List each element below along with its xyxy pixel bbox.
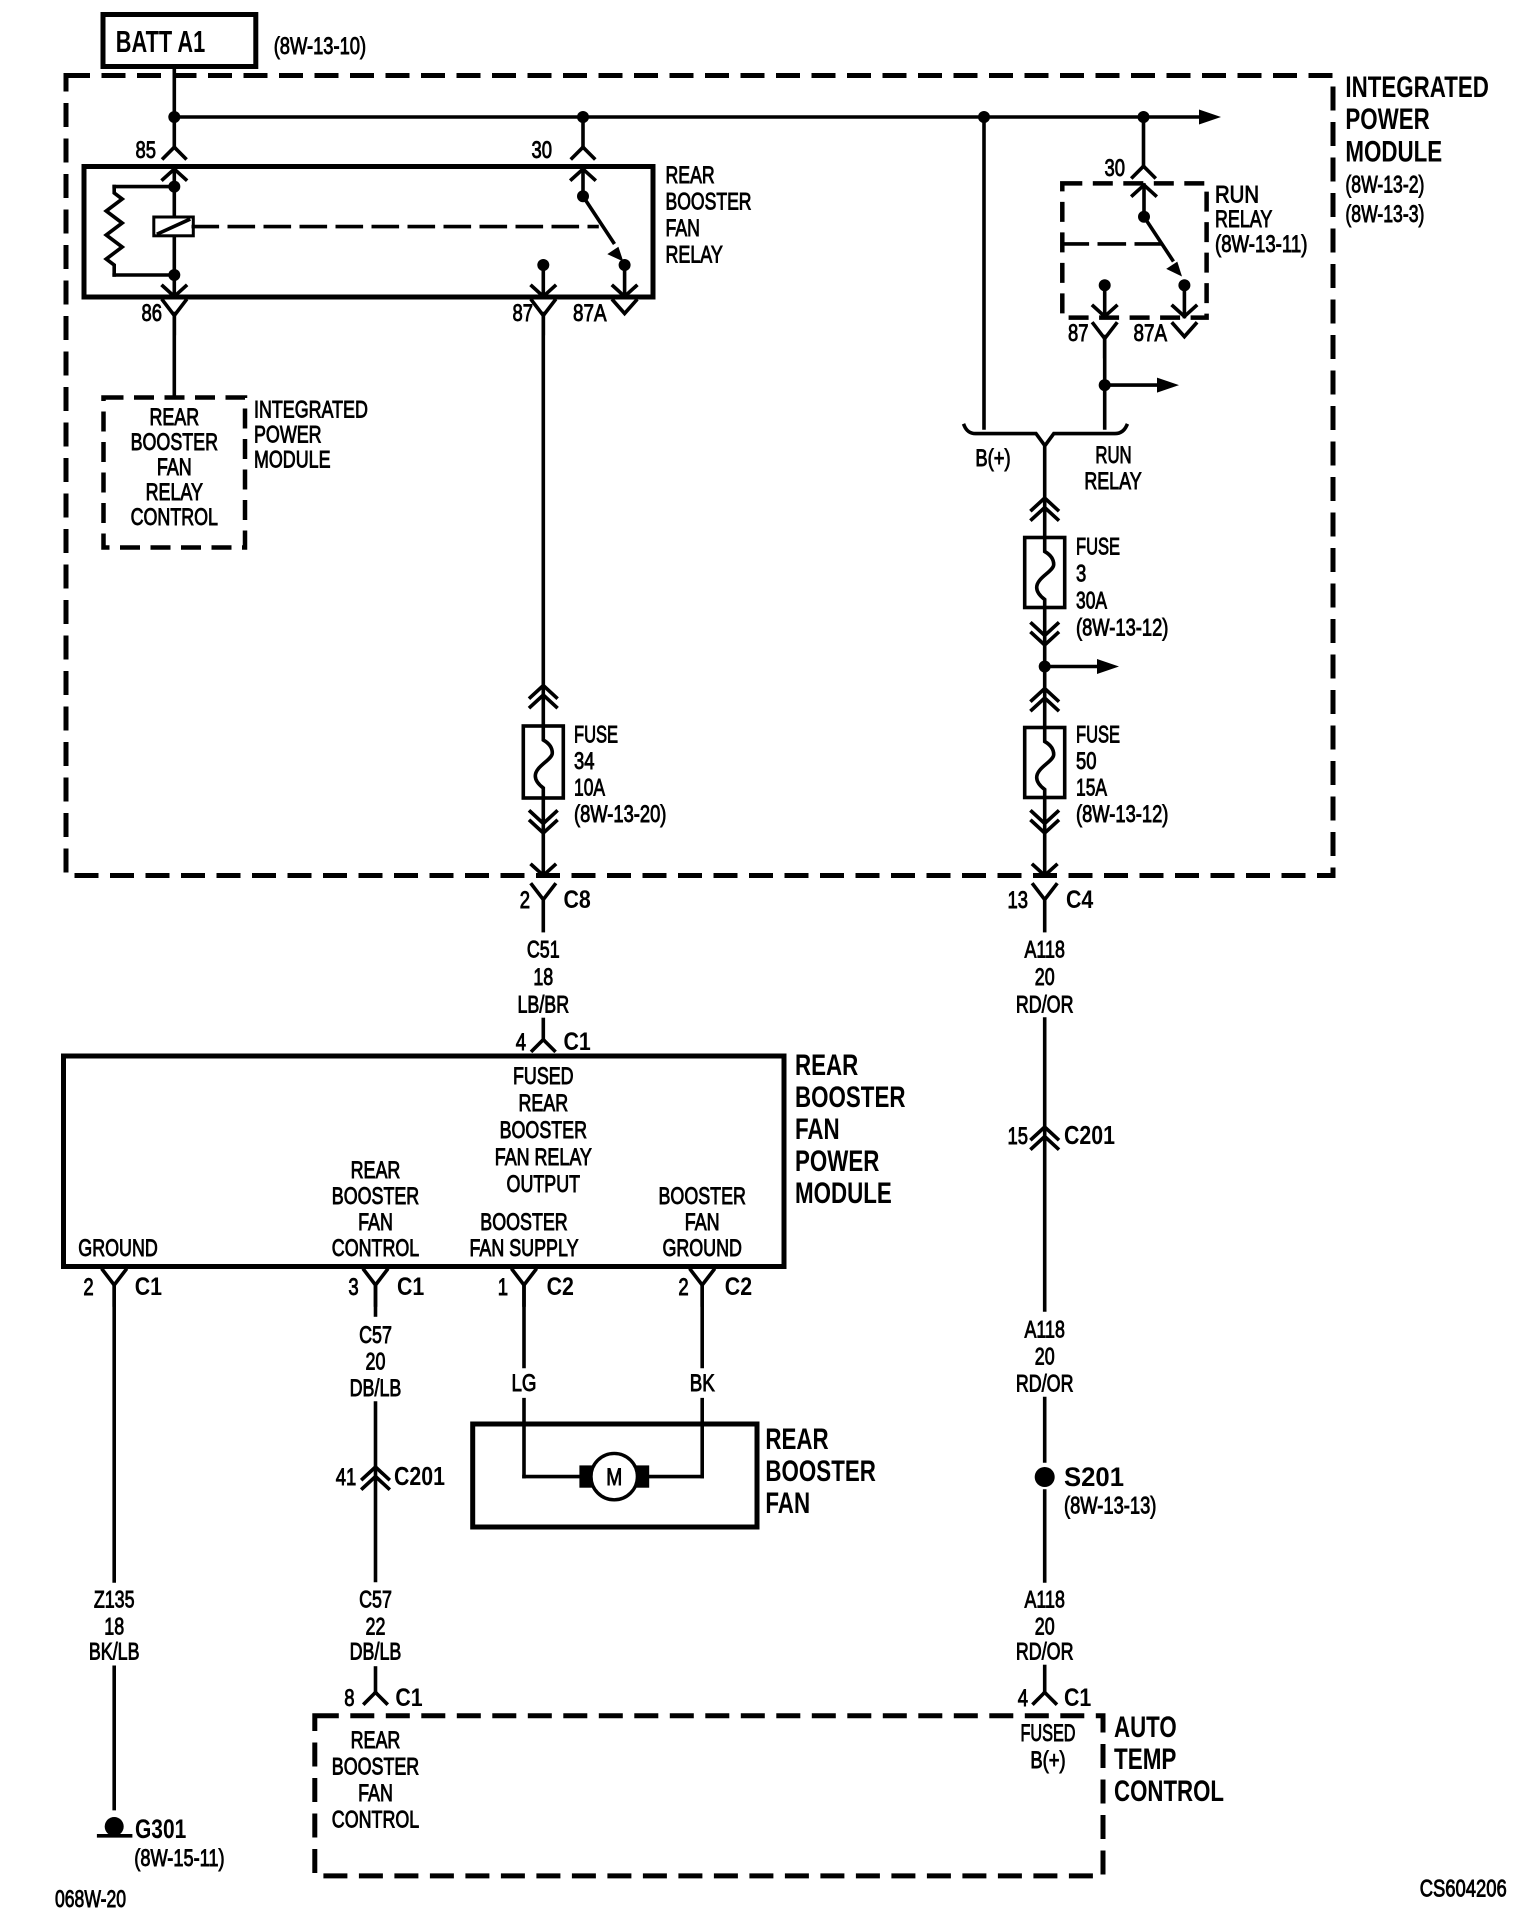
- svg-text:TEMP: TEMP: [1114, 1743, 1176, 1776]
- svg-text:C1: C1: [1064, 1684, 1091, 1712]
- svg-text:87A: 87A: [573, 300, 607, 327]
- svg-text:BOOSTER: BOOSTER: [332, 1183, 419, 1210]
- pin label FUSED B(+): [1021, 1720, 1076, 1774]
- svg-text:C57: C57: [359, 1587, 392, 1614]
- inline connector 15 C201: [1032, 1127, 1058, 1139]
- wire Z135 lower segment: [112, 1667, 116, 1808]
- pin label FUSED REAR BOOSTER FAN RELAY OUTPUT: [495, 1063, 592, 1198]
- svg-text:Z135: Z135: [94, 1587, 135, 1614]
- svg-text:1: 1: [498, 1274, 508, 1301]
- run relay pin 30 entry arrow: [1133, 185, 1156, 196]
- wire fuse 3 to fuse 50: [1043, 608, 1047, 728]
- pin 86 exit arrow: [173, 275, 177, 297]
- svg-text:POWER: POWER: [795, 1145, 880, 1178]
- svg-text:FUSE: FUSE: [1076, 534, 1120, 561]
- svg-text:FAN: FAN: [795, 1113, 840, 1146]
- inline connector chevrons below fuse 34: [530, 821, 556, 833]
- wire label C57 22 DB/LB: [350, 1587, 402, 1666]
- run relay coil link (dashed): [1062, 242, 1160, 246]
- motor M symbol: [591, 1453, 637, 1499]
- svg-text:FUSED: FUSED: [1021, 1720, 1076, 1747]
- svg-text:C2: C2: [547, 1273, 574, 1301]
- fuse F3 box: [1025, 538, 1065, 608]
- wire C57 through C201: [374, 1403, 378, 1581]
- label REAR BOOSTER FAN: [765, 1423, 876, 1520]
- svg-text:BK/LB: BK/LB: [89, 1639, 140, 1666]
- pin 87A connector (run relay): [1173, 324, 1196, 337]
- svg-text:30A: 30A: [1076, 588, 1107, 615]
- svg-text:22: 22: [366, 1614, 386, 1641]
- svg-text:A118: A118: [1025, 1317, 1065, 1344]
- svg-text:FAN: FAN: [358, 1780, 393, 1807]
- svg-text:REAR: REAR: [149, 404, 199, 431]
- svg-text:RELAY: RELAY: [666, 242, 723, 269]
- svg-text:FAN: FAN: [157, 454, 192, 481]
- svg-text:LB/BR: LB/BR: [517, 992, 569, 1019]
- brace combining B(+) and RUN RELAY feeds: [964, 426, 1126, 446]
- relay RUN RELAY box (dashed): [1062, 183, 1206, 317]
- wire run relay 87 down: [1103, 337, 1107, 428]
- svg-text:BK: BK: [690, 1370, 715, 1397]
- svg-text:GROUND: GROUND: [662, 1235, 742, 1262]
- wire C57 from pin 3: [374, 1285, 378, 1315]
- wire from BATT A1 down to relay pin 85: [173, 67, 177, 148]
- pin 87A exit arrow: [623, 265, 627, 297]
- svg-text:POWER: POWER: [254, 422, 322, 449]
- motor brush left: [579, 1465, 592, 1487]
- svg-text:(8W-13-12): (8W-13-12): [1076, 801, 1168, 828]
- svg-text:M: M: [606, 1464, 622, 1491]
- ground G301: [105, 1817, 124, 1836]
- wire BK into fan: [700, 1400, 704, 1477]
- wire branch arrow between fuses: [1045, 665, 1098, 669]
- run relay pin 87A exit arrow: [1183, 285, 1187, 316]
- svg-text:RUN: RUN: [1095, 442, 1131, 469]
- svg-text:DB/LB: DB/LB: [350, 1375, 402, 1402]
- block REAR BOOSTER FAN RELAY CONTROL (dashed): [104, 398, 246, 548]
- wire bus to run relay pin 30: [1142, 117, 1146, 166]
- svg-text:REAR: REAR: [666, 162, 715, 189]
- wire pin 87 down to fuse 34: [541, 314, 545, 727]
- run relay pin 87 exit arrow: [1103, 285, 1107, 316]
- svg-text:POWER: POWER: [1345, 103, 1430, 136]
- wire A118 segment 4: [1043, 1491, 1047, 1581]
- svg-text:REAR: REAR: [351, 1727, 401, 1754]
- svg-text:86: 86: [142, 300, 163, 327]
- svg-text:FAN: FAN: [765, 1487, 810, 1520]
- svg-text:2: 2: [83, 1274, 93, 1301]
- svg-text:30: 30: [1105, 155, 1126, 182]
- svg-text:BOOSTER: BOOSTER: [480, 1209, 567, 1236]
- svg-text:BOOSTER: BOOSTER: [659, 1183, 746, 1210]
- pin 30 connector (run relay): [1133, 166, 1144, 177]
- svg-text:2: 2: [678, 1274, 688, 1301]
- svg-text:RUN: RUN: [1215, 182, 1259, 209]
- node run relay switch common: [1138, 211, 1150, 223]
- wire B(+) bus with arrow: [174, 115, 1200, 119]
- relay switch blade with arrow: [583, 196, 614, 242]
- svg-text:4: 4: [1018, 1685, 1028, 1712]
- pin 30 entry arrow: [572, 169, 595, 180]
- svg-text:(8W-13-3): (8W-13-3): [1345, 201, 1424, 228]
- wire brace to fuse 3: [1043, 445, 1047, 538]
- wire motor leads: [524, 1475, 580, 1479]
- node junction run relay output: [1099, 379, 1111, 391]
- svg-text:C2: C2: [725, 1273, 752, 1301]
- wire-end arrow at IPM border (C4): [1033, 865, 1056, 876]
- svg-text:(8W-13-12): (8W-13-12): [1076, 615, 1168, 642]
- inline connector 41 C201: [363, 1467, 389, 1479]
- svg-text:RD/OR: RD/OR: [1016, 992, 1074, 1019]
- wire A118 segment 2: [1043, 1019, 1047, 1310]
- relay REAR BOOSTER FAN RELAY box: [84, 167, 653, 298]
- svg-text:A118: A118: [1025, 937, 1065, 964]
- svg-text:13: 13: [1008, 887, 1029, 914]
- relay coil symbol: [154, 217, 194, 236]
- fuse F50 box: [1025, 728, 1065, 798]
- inline connector chevrons below fuse 3: [1032, 633, 1058, 645]
- pin label BOOSTER FAN GROUND: [659, 1183, 746, 1262]
- svg-text:RELAY: RELAY: [1215, 206, 1272, 233]
- svg-text:REAR: REAR: [795, 1049, 859, 1082]
- label AUTO TEMP CONTROL: [1114, 1711, 1224, 1808]
- label REAR BOOSTER FAN RELAY: [666, 162, 752, 269]
- pin 86 connector: [163, 301, 186, 316]
- run relay switch blade with arrow: [1144, 217, 1173, 260]
- svg-text:RELAY: RELAY: [146, 479, 203, 506]
- node coil top junction: [168, 181, 180, 193]
- node junction between fuses: [1039, 661, 1051, 673]
- power feed box BATT A1: [103, 15, 366, 67]
- svg-text:A118: A118: [1025, 1587, 1065, 1614]
- connector 8 C1 (auto temp control): [365, 1692, 376, 1703]
- node junction bus to run relay 30: [1138, 111, 1150, 123]
- wire label C51 18 LB/BR: [517, 937, 569, 1019]
- svg-text:LG: LG: [512, 1370, 537, 1397]
- svg-text:GROUND: GROUND: [78, 1235, 158, 1262]
- svg-text:15: 15: [1008, 1123, 1029, 1150]
- svg-text:(8W-15-11): (8W-15-11): [134, 1845, 224, 1872]
- svg-text:8: 8: [344, 1685, 354, 1712]
- svg-text:BOOSTER: BOOSTER: [666, 189, 752, 216]
- label RUN RELAY (feed): [1084, 442, 1141, 495]
- svg-text:3: 3: [1076, 561, 1086, 588]
- wire label A118 20 RD/OR (3): [1016, 1587, 1074, 1666]
- wire fuse 50 to connector C4: [1043, 798, 1047, 876]
- svg-text:INTEGRATED: INTEGRATED: [1345, 71, 1489, 104]
- label INTEGRATED POWER MODULE: [1345, 71, 1489, 228]
- svg-text:(8W-13-20): (8W-13-20): [574, 801, 666, 828]
- integrated power module boundary (dashed): [66, 76, 1333, 876]
- svg-text:2: 2: [520, 887, 530, 914]
- wire A118 segment 3: [1043, 1399, 1047, 1462]
- svg-text:BOOSTER: BOOSTER: [332, 1754, 419, 1781]
- svg-text:(8W-13-11): (8W-13-11): [1215, 231, 1307, 258]
- svg-text:REAR: REAR: [351, 1157, 401, 1184]
- wire label A118 20 RD/OR (2): [1016, 1317, 1074, 1398]
- svg-text:3: 3: [348, 1274, 358, 1301]
- svg-text:18: 18: [533, 964, 553, 991]
- svg-text:87A: 87A: [1134, 320, 1168, 347]
- svg-text:G301: G301: [135, 1814, 186, 1844]
- pin label BOOSTER FAN SUPPLY: [470, 1209, 579, 1262]
- svg-text:C1: C1: [564, 1028, 591, 1056]
- svg-text:C1: C1: [397, 1273, 424, 1301]
- wire pin 86 to relay control: [173, 314, 177, 398]
- node junction bus to B(+) drop: [978, 111, 990, 123]
- label REAR BOOSTER FAN POWER MODULE: [795, 1049, 906, 1210]
- svg-text:BOOSTER: BOOSTER: [131, 429, 218, 456]
- pin 30 connector: [572, 147, 583, 158]
- node run relay 87 contact: [1099, 279, 1111, 291]
- node junction at battery feed: [168, 111, 180, 123]
- svg-text:30: 30: [532, 137, 553, 164]
- svg-text:C1: C1: [395, 1684, 422, 1712]
- svg-text:BOOSTER: BOOSTER: [765, 1455, 876, 1488]
- svg-text:(8W-13-10): (8W-13-10): [274, 33, 366, 60]
- connector 2 C1 (ground pin): [103, 1270, 126, 1285]
- svg-text:REAR: REAR: [518, 1090, 568, 1117]
- svg-text:RD/OR: RD/OR: [1016, 1639, 1074, 1666]
- label FUSE 50 15A: [1076, 722, 1168, 829]
- wire LG into fan: [522, 1400, 526, 1477]
- svg-text:10A: 10A: [574, 775, 605, 802]
- svg-text:(8W-13-13): (8W-13-13): [1064, 1493, 1156, 1520]
- svg-text:MODULE: MODULE: [254, 447, 331, 474]
- svg-text:FAN: FAN: [358, 1209, 393, 1236]
- wire coil vertical: [173, 187, 177, 275]
- pin 87 connector (run relay): [1093, 324, 1116, 339]
- wire BK upper segment: [700, 1285, 704, 1367]
- svg-text:20: 20: [1035, 1344, 1055, 1371]
- inline connector chevrons above fuse 34: [530, 686, 556, 698]
- wire coil-to-switch link (dashed): [193, 225, 597, 229]
- connector 1 C2 (supply pin): [513, 1270, 536, 1285]
- connector 2 C2 (fan ground pin): [691, 1270, 714, 1285]
- svg-text:INTEGRATED: INTEGRATED: [254, 397, 368, 424]
- wire A118 to auto temp control: [1043, 1667, 1047, 1693]
- svg-text:FAN SUPPLY: FAN SUPPLY: [470, 1235, 579, 1262]
- svg-text:FAN RELAY: FAN RELAY: [495, 1144, 592, 1171]
- svg-text:18: 18: [104, 1614, 124, 1641]
- svg-text:87: 87: [513, 300, 534, 327]
- pin label REAR BOOSTER FAN CONTROL (ATC): [332, 1727, 419, 1834]
- svg-text:FUSED: FUSED: [513, 1063, 574, 1090]
- label REAR BOOSTER FAN RELAY CONTROL: [131, 404, 218, 531]
- wire LG upper segment: [522, 1285, 526, 1367]
- svg-text:20: 20: [1035, 964, 1055, 991]
- motor brush right: [636, 1465, 649, 1487]
- module REAR BOOSTER FAN POWER MODULE box: [64, 1056, 785, 1267]
- pin 87A connector: [613, 301, 636, 314]
- wire label C57 20 DB/LB: [350, 1322, 402, 1402]
- svg-text:CONTROL: CONTROL: [332, 1235, 419, 1262]
- svg-text:85: 85: [136, 137, 157, 164]
- svg-text:BATT A1: BATT A1: [116, 24, 205, 59]
- svg-text:20: 20: [1035, 1614, 1055, 1641]
- svg-text:87: 87: [1068, 320, 1089, 347]
- svg-text:REAR: REAR: [765, 1423, 829, 1456]
- pin 87 exit arrow: [541, 265, 545, 297]
- svg-text:MODULE: MODULE: [795, 1177, 892, 1210]
- svg-text:41: 41: [336, 1464, 357, 1491]
- svg-text:FAN: FAN: [666, 215, 701, 242]
- wire B(+) drop: [982, 117, 986, 428]
- svg-text:S201: S201: [1064, 1462, 1124, 1492]
- svg-text:C4: C4: [1066, 886, 1093, 914]
- module AUTO TEMP CONTROL (dashed): [315, 1716, 1103, 1876]
- svg-text:AUTO: AUTO: [1114, 1711, 1177, 1744]
- pin 85 entry arrow: [163, 169, 186, 180]
- svg-text:B(+): B(+): [975, 445, 1010, 472]
- svg-text:C57: C57: [359, 1322, 392, 1349]
- svg-text:FAN: FAN: [685, 1209, 720, 1236]
- svg-text:CONTROL: CONTROL: [1114, 1775, 1224, 1808]
- svg-text:CONTROL: CONTROL: [332, 1807, 419, 1834]
- connector 4 C1 (power module): [541, 1020, 545, 1040]
- resistor (relay suppression): [114, 185, 174, 189]
- node coil bottom junction: [168, 269, 180, 281]
- wire fuse 34 to connector C8: [541, 798, 545, 876]
- wire bus drop to relay pin 30: [581, 117, 585, 147]
- svg-text:C201: C201: [1064, 1120, 1115, 1150]
- inline connector chevrons above fuse 3: [1032, 498, 1058, 510]
- svg-text:CONTROL: CONTROL: [131, 504, 218, 531]
- svg-text:068W-20: 068W-20: [55, 1886, 126, 1913]
- node pin 87A contact: [619, 259, 631, 271]
- svg-text:FUSE: FUSE: [1076, 722, 1120, 749]
- svg-text:15A: 15A: [1076, 775, 1107, 802]
- svg-text:C51: C51: [527, 937, 560, 964]
- svg-text:20: 20: [366, 1349, 386, 1376]
- wire C57 to auto temp control: [374, 1668, 378, 1692]
- motor REAR BOOSTER FAN box: [473, 1424, 757, 1527]
- svg-text:MODULE: MODULE: [1345, 136, 1442, 169]
- svg-text:C1: C1: [135, 1273, 162, 1301]
- connector 3 C1 (control pin): [364, 1270, 387, 1285]
- wire label A118 20 RD/OR (1): [1016, 937, 1074, 1019]
- inline connector chevrons below fuse 50: [1032, 821, 1058, 833]
- svg-text:C201: C201: [394, 1461, 445, 1491]
- inline connector chevrons above fuse 50: [1032, 689, 1058, 701]
- svg-text:C8: C8: [564, 886, 591, 914]
- svg-text:BOOSTER: BOOSTER: [500, 1117, 587, 1144]
- svg-text:B(+): B(+): [1030, 1747, 1065, 1774]
- svg-text:FUSE: FUSE: [574, 722, 618, 749]
- node junction bus to relay pin 30: [577, 111, 589, 123]
- node pin 87 contact: [537, 259, 549, 271]
- svg-text:(8W-13-2): (8W-13-2): [1345, 172, 1424, 199]
- svg-text:OUTPUT: OUTPUT: [507, 1171, 581, 1198]
- svg-text:50: 50: [1076, 748, 1097, 775]
- node switch common 30: [577, 190, 589, 202]
- splice S201: [1035, 1467, 1055, 1487]
- pin 87 connector: [532, 301, 555, 316]
- fuse F34 box: [523, 726, 563, 798]
- svg-text:34: 34: [574, 748, 595, 775]
- label RUN RELAY (8W-13-11): [1215, 182, 1307, 259]
- wire Z135 upper segment: [112, 1285, 116, 1581]
- wire branch arrow from run relay 87: [1105, 383, 1158, 387]
- svg-text:CS604206: CS604206: [1420, 1876, 1507, 1903]
- svg-text:4: 4: [516, 1029, 526, 1056]
- svg-text:RELAY: RELAY: [1084, 468, 1141, 495]
- wire-end arrow at IPM border (C8): [532, 865, 555, 876]
- label FUSE 34 10A: [574, 722, 666, 829]
- label FUSE 3 30A: [1076, 534, 1168, 642]
- svg-text:DB/LB: DB/LB: [350, 1639, 402, 1666]
- svg-text:BOOSTER: BOOSTER: [795, 1081, 906, 1114]
- pin 85 connector: [163, 147, 174, 158]
- connector 4 C1 (auto temp control): [1034, 1692, 1045, 1703]
- svg-text:RD/OR: RD/OR: [1016, 1371, 1074, 1398]
- label INTEGRATED POWER MODULE (inner): [254, 397, 368, 474]
- node run relay 87A contact: [1178, 279, 1190, 291]
- wire label Z135 18 BK/LB: [89, 1587, 140, 1666]
- pin label REAR BOOSTER FAN CONTROL: [332, 1157, 419, 1262]
